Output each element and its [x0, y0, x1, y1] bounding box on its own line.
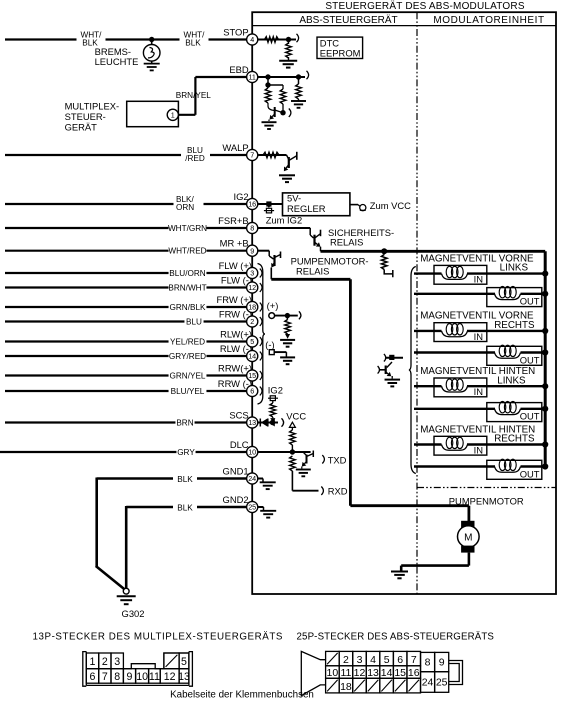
svg-text:Kabelseite der Klemmenbuchsen: Kabelseite der Klemmenbuchsen — [170, 689, 314, 700]
svg-text:2: 2 — [102, 656, 108, 668]
svg-text:25: 25 — [248, 503, 256, 512]
svg-text:8: 8 — [114, 671, 120, 683]
svg-text:GRY: GRY — [177, 448, 195, 457]
svg-text:OUT: OUT — [520, 468, 540, 479]
svg-text:OUT: OUT — [520, 411, 540, 422]
svg-text:12: 12 — [164, 671, 176, 683]
svg-text:14: 14 — [381, 667, 393, 679]
svg-text:SCS: SCS — [229, 409, 248, 420]
svg-text:8: 8 — [425, 657, 431, 669]
svg-text:BLU/YEL: BLU/YEL — [171, 387, 205, 396]
svg-text:14: 14 — [248, 352, 256, 361]
svg-text:9: 9 — [439, 657, 445, 669]
svg-text:GND1: GND1 — [223, 465, 249, 476]
svg-text:RELAIS: RELAIS — [330, 237, 363, 248]
svg-text:BRN/WHT: BRN/WHT — [168, 283, 206, 292]
svg-text:1: 1 — [171, 111, 175, 120]
svg-text:GRN/BLK: GRN/BLK — [170, 303, 206, 312]
svg-text:(-): (-) — [265, 339, 274, 350]
svg-text:WHT/GRN: WHT/GRN — [168, 224, 207, 233]
svg-text:25P-STECKER DES ABS-STEUERGERÄ: 25P-STECKER DES ABS-STEUERGERÄTS — [297, 632, 495, 643]
svg-text:13P-STECKER DES MULTIPLEX-STEU: 13P-STECKER DES MULTIPLEX-STEUERGERÄTS — [33, 632, 283, 643]
svg-text:YEL/RED: YEL/RED — [170, 337, 205, 346]
svg-text:GRN/YEL: GRN/YEL — [170, 371, 206, 380]
svg-text:11: 11 — [149, 671, 160, 683]
svg-text:BLU: BLU — [186, 317, 202, 326]
svg-text:OUT: OUT — [520, 354, 540, 365]
svg-text:M: M — [464, 532, 472, 543]
svg-text:MULTIPLEX-: MULTIPLEX- — [65, 101, 120, 112]
svg-text:GRY/RED: GRY/RED — [169, 352, 206, 361]
svg-text:6: 6 — [90, 671, 96, 683]
svg-text:6: 6 — [250, 387, 254, 396]
svg-text:RXD: RXD — [328, 486, 348, 497]
svg-text:IN: IN — [474, 386, 483, 397]
svg-text:VCC: VCC — [286, 411, 306, 422]
svg-text:16: 16 — [248, 200, 256, 209]
svg-text:LEUCHTE: LEUCHTE — [95, 56, 139, 67]
svg-text:6: 6 — [397, 654, 403, 666]
svg-text:GERÄT: GERÄT — [65, 122, 98, 133]
svg-text:RRW (-): RRW (-) — [218, 378, 252, 389]
svg-text:15: 15 — [394, 667, 406, 679]
svg-text:3: 3 — [114, 656, 120, 668]
svg-text:10: 10 — [136, 671, 148, 683]
svg-text:BLU/ORN: BLU/ORN — [169, 269, 205, 278]
svg-text:7: 7 — [411, 654, 417, 666]
svg-text:FLW (+): FLW (+) — [219, 260, 252, 271]
svg-text:4: 4 — [250, 35, 254, 44]
svg-text:10: 10 — [248, 448, 256, 457]
svg-text:LINKS: LINKS — [500, 263, 529, 274]
svg-text:13: 13 — [178, 671, 190, 683]
svg-text:15: 15 — [248, 371, 256, 380]
svg-text:7: 7 — [102, 671, 108, 683]
svg-text:DLC: DLC — [230, 439, 249, 450]
svg-text:STOP: STOP — [223, 26, 248, 37]
svg-text:8: 8 — [250, 224, 254, 233]
svg-text:7: 7 — [250, 151, 254, 160]
svg-text:IN: IN — [474, 331, 483, 342]
svg-text:EBD: EBD — [229, 64, 249, 75]
svg-text:BRN: BRN — [176, 418, 193, 427]
svg-text:IG2: IG2 — [268, 385, 283, 396]
svg-text:WHT/RED: WHT/RED — [168, 247, 206, 256]
svg-text:REGLER: REGLER — [287, 203, 326, 214]
svg-text:RELAIS: RELAIS — [296, 265, 329, 276]
svg-text:11: 11 — [340, 667, 351, 679]
svg-text:BLK: BLK — [177, 475, 193, 484]
svg-text:18: 18 — [248, 303, 256, 312]
svg-text:24: 24 — [248, 474, 256, 483]
svg-text:PUMPENMOTOR: PUMPENMOTOR — [449, 496, 524, 507]
svg-text:1: 1 — [90, 656, 96, 668]
svg-text:TXD: TXD — [328, 454, 347, 465]
svg-text:5: 5 — [181, 656, 187, 668]
svg-text:10: 10 — [327, 667, 339, 679]
svg-text:12: 12 — [248, 283, 256, 292]
svg-text:11: 11 — [248, 73, 255, 82]
svg-text:3: 3 — [357, 654, 363, 666]
svg-text:BLK: BLK — [185, 39, 201, 48]
svg-text:WALP: WALP — [222, 142, 248, 153]
svg-text:RECHTS: RECHTS — [494, 434, 535, 445]
svg-text:12: 12 — [354, 667, 366, 679]
svg-text:STEUER-: STEUER- — [65, 111, 106, 122]
svg-text:BLK: BLK — [177, 503, 193, 512]
svg-text:FSR+B: FSR+B — [218, 215, 248, 226]
svg-text:STEUERGERÄT DES ABS-MODULATORS: STEUERGERÄT DES ABS-MODULATORS — [325, 0, 525, 12]
svg-text:IN: IN — [474, 444, 483, 455]
svg-text:9: 9 — [127, 671, 133, 683]
svg-text:MR +B: MR +B — [220, 238, 249, 249]
svg-text:4: 4 — [370, 654, 376, 666]
svg-text:5: 5 — [250, 337, 254, 346]
svg-text:MODULATOREINHEIT: MODULATOREINHEIT — [433, 15, 544, 26]
svg-text:GND2: GND2 — [223, 494, 249, 505]
svg-text:24: 24 — [422, 677, 434, 689]
svg-text:ABS-STEUERGERÄT: ABS-STEUERGERÄT — [299, 14, 397, 26]
svg-text:2: 2 — [250, 317, 254, 326]
svg-text:(+): (+) — [267, 300, 279, 311]
svg-text:2: 2 — [343, 654, 349, 666]
svg-text:EEPROM: EEPROM — [320, 48, 361, 59]
svg-text:BRN/YEL: BRN/YEL — [176, 91, 211, 100]
svg-text:5: 5 — [384, 654, 390, 666]
svg-text:16: 16 — [408, 667, 420, 679]
svg-text:IN: IN — [474, 274, 483, 285]
svg-text:OUT: OUT — [520, 296, 540, 307]
svg-text:/RED: /RED — [185, 154, 205, 163]
svg-text:G302: G302 — [122, 608, 145, 619]
svg-text:3: 3 — [250, 269, 254, 278]
svg-text:9: 9 — [250, 246, 254, 255]
svg-text:Zum VCC: Zum VCC — [370, 200, 411, 211]
svg-text:18: 18 — [340, 681, 352, 693]
svg-text:LINKS: LINKS — [497, 375, 526, 386]
svg-text:RECHTS: RECHTS — [494, 320, 535, 331]
svg-text:25: 25 — [436, 677, 448, 689]
svg-text:FRW (+): FRW (+) — [217, 294, 253, 305]
svg-text:ORN: ORN — [176, 203, 194, 212]
svg-text:RRW(+): RRW(+) — [218, 363, 252, 374]
svg-text:13: 13 — [367, 667, 379, 679]
svg-text:13: 13 — [248, 418, 256, 427]
svg-text:IG2: IG2 — [233, 191, 248, 202]
